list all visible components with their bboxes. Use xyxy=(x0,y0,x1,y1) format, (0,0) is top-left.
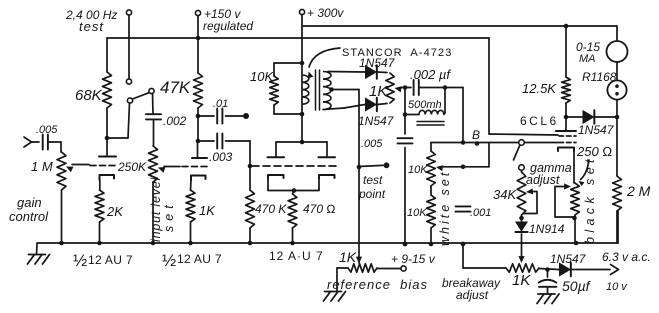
wire 34K wiper xyxy=(523,188,537,213)
ground main xyxy=(28,244,50,265)
resistor 1K stage2 xyxy=(186,190,195,243)
node primary bottom xyxy=(300,112,305,117)
svg-text:10K: 10K xyxy=(407,207,427,219)
svg-text:R1168: R1168 xyxy=(582,70,617,84)
wire 250K bottom xyxy=(152,182,154,243)
ground ref xyxy=(324,292,346,302)
meter M1 0-15MA xyxy=(607,41,628,62)
resistor 1K ref pot xyxy=(348,264,377,272)
capacitor .005 filter xyxy=(398,88,413,245)
label R1168 xyxy=(582,70,617,84)
wire white mid xyxy=(430,186,432,195)
label 0-15 MA xyxy=(576,40,600,65)
label 12AU7 third xyxy=(269,249,324,263)
svg-text:500mh: 500mh xyxy=(408,99,442,111)
wire node B xyxy=(431,142,558,144)
wire plates common xyxy=(276,140,327,156)
label 1N547 bias xyxy=(550,252,587,266)
arrow to transformer xyxy=(308,48,340,79)
label 47K xyxy=(160,78,191,97)
label 6CL6 xyxy=(520,114,559,128)
node center tap xyxy=(329,87,334,92)
transformer T1 secondary xyxy=(323,72,331,110)
wire cap to 1M xyxy=(48,142,61,152)
wire cathode drop xyxy=(573,151,575,183)
node 2K ground xyxy=(97,241,102,246)
inductor 500mh core xyxy=(417,122,444,126)
svg-text:½: ½ xyxy=(73,251,87,270)
label .005 filter xyxy=(361,138,383,150)
label 10K white bottom xyxy=(407,207,427,219)
svg-text:2 M: 2 M xyxy=(626,183,651,199)
diode 1N547 meter xyxy=(566,110,617,123)
terminal +300V xyxy=(299,9,304,63)
switch S1 contact b xyxy=(127,98,132,103)
node grid tap xyxy=(248,164,253,169)
label 10v xyxy=(606,281,628,293)
node bus dot 470 xyxy=(0,0,1,1)
label 1K stage2 xyxy=(199,203,216,218)
capacitor .003 feedback xyxy=(198,134,250,149)
capacitor 50uf xyxy=(538,270,557,295)
wire cathode to 1K xyxy=(190,180,193,190)
label .002uf xyxy=(410,67,451,82)
resistor 34K pot xyxy=(517,170,526,215)
svg-text:1N547: 1N547 xyxy=(358,114,395,128)
label half 12AU7 second xyxy=(162,251,222,270)
wire 500mh right xyxy=(444,88,446,114)
wire 34K to diode xyxy=(521,215,523,222)
label 2M xyxy=(626,183,651,199)
label half 12AU7 first xyxy=(73,251,133,270)
resistor 470K xyxy=(246,141,255,243)
label B xyxy=(472,128,480,142)
label 1N914 xyxy=(529,222,565,236)
wire grid1 feed xyxy=(489,134,558,135)
wire center tap xyxy=(332,89,360,91)
node meter junction xyxy=(615,115,620,120)
pentode 6CL6 cathode xyxy=(558,148,574,152)
svg-text:B: B xyxy=(472,128,480,142)
label gamma adjust xyxy=(526,161,572,187)
svg-text:47K: 47K xyxy=(160,78,191,97)
wire +150V bus xyxy=(107,38,489,134)
wire plate riser xyxy=(301,63,303,142)
diode 1N547 top xyxy=(366,65,377,78)
diode 1N914 xyxy=(515,222,527,232)
wire cathode to 2K xyxy=(99,180,101,190)
wire meter link xyxy=(616,62,618,81)
svg-text:1N547: 1N547 xyxy=(359,56,396,70)
node 250K ground xyxy=(151,241,156,246)
svg-text:.005: .005 xyxy=(361,138,383,150)
node plate junction xyxy=(564,115,569,120)
wire diode to 1K pot xyxy=(378,71,388,74)
switch S1 pole xyxy=(149,88,154,93)
wire plate drop xyxy=(197,116,199,141)
label +300V xyxy=(307,6,344,20)
svg-text:gain: gain xyxy=(17,195,42,210)
svg-text:.01: .01 xyxy=(213,98,228,110)
wire switch pole down xyxy=(152,94,155,114)
resistor 250ohm pot xyxy=(571,183,580,215)
node 1M ground xyxy=(59,241,64,246)
triode V1a grid xyxy=(90,165,118,167)
resistor 47K xyxy=(194,38,203,116)
svg-text:2K: 2K xyxy=(106,204,124,219)
svg-text:.002 µf: .002 µf xyxy=(410,67,451,82)
label 2K xyxy=(106,204,124,219)
label .005 input xyxy=(36,124,58,136)
svg-text:1K: 1K xyxy=(512,272,531,289)
wire +300V bus xyxy=(302,26,617,41)
label black set xyxy=(583,155,597,244)
node 50uf tap xyxy=(545,267,550,272)
wire white wiper xyxy=(436,143,489,171)
capacitor .002uf xyxy=(414,80,463,95)
switch S1 lever xyxy=(133,93,150,99)
node 1K ground xyxy=(188,241,193,246)
terminal +150V regulated xyxy=(195,10,200,38)
svg-text:point: point xyxy=(358,187,386,201)
label STANCOR xyxy=(342,47,452,59)
node test point tap xyxy=(357,165,362,170)
svg-text:1K: 1K xyxy=(199,203,216,218)
triode V1a cathode xyxy=(100,175,115,180)
switch S2 contact xyxy=(519,140,525,146)
ground 50uf xyxy=(537,294,559,304)
wire breakaway right xyxy=(539,269,559,270)
label breakaway adjust xyxy=(442,276,501,302)
node white ground xyxy=(429,242,434,247)
triode V1a plate xyxy=(99,138,116,157)
wire center tap drop xyxy=(358,90,360,264)
svg-text:test: test xyxy=(79,19,104,34)
node 47K plate junction xyxy=(196,114,201,119)
resistor 68K xyxy=(103,38,112,138)
wire 1K wiper out xyxy=(395,86,412,92)
triode V2b plate xyxy=(319,156,336,158)
svg-text:MA: MA xyxy=(579,53,596,65)
label 12.5K xyxy=(522,81,557,96)
diode 1N547 bottom xyxy=(366,98,377,111)
svg-text:test: test xyxy=(363,173,383,187)
node wiper cross xyxy=(461,165,466,170)
triode V2b cathode xyxy=(319,175,335,189)
inductor 500mh xyxy=(405,110,445,114)
resistor 10K primary xyxy=(270,63,302,114)
label 250 ohm xyxy=(576,144,612,159)
label input level set xyxy=(149,176,163,242)
svg-text:50µf: 50µf xyxy=(562,278,592,294)
diode 1N547 bias xyxy=(560,263,571,276)
svg-text:250K: 250K xyxy=(117,160,147,174)
svg-text:.003: .003 xyxy=(209,150,233,164)
pentode 6CL6 plate xyxy=(556,117,576,131)
transformer T1 primary xyxy=(302,75,309,104)
label +150V regulated xyxy=(203,7,253,33)
triode V2a cathode xyxy=(268,175,284,189)
terminal 2400Hz test xyxy=(126,10,131,79)
triode V1b cathode xyxy=(191,176,206,181)
label .002 switch xyxy=(163,114,187,128)
capacitor .005 input xyxy=(43,135,48,150)
resistor 10K white top xyxy=(427,151,436,186)
svg-text:1K: 1K xyxy=(339,249,357,265)
resistor 1K breakaway pot xyxy=(506,264,539,272)
label .001 xyxy=(470,207,491,219)
label 1K breakaway xyxy=(512,272,531,289)
svg-text:68K: 68K xyxy=(75,87,103,104)
svg-text:10K: 10K xyxy=(408,164,428,176)
arrow 250 ohm xyxy=(579,160,590,186)
arrow ref wiper xyxy=(356,257,362,264)
svg-text:adjust: adjust xyxy=(526,173,560,187)
wire cathodes join xyxy=(268,188,319,193)
node test point xyxy=(384,162,390,168)
svg-text:+ 300v: + 300v xyxy=(307,6,344,20)
resistor 1K detector pot xyxy=(386,73,394,103)
label +9-15V xyxy=(391,252,436,266)
label 34K xyxy=(493,187,517,202)
node junction +150V feed xyxy=(196,36,201,41)
svg-text:12.5K: 12.5K xyxy=(522,81,557,96)
wire filter to B xyxy=(462,88,464,143)
svg-text:½: ½ xyxy=(162,251,176,270)
wire diode to 1K pot bottom xyxy=(378,104,388,105)
wire test point xyxy=(359,165,384,166)
node .005 ground xyxy=(403,242,408,247)
wire ground bus xyxy=(37,211,618,243)
wire to 6.3v xyxy=(571,265,619,275)
svg-text:6.3 v a.c.: 6.3 v a.c. xyxy=(602,250,651,264)
label 1M xyxy=(31,159,53,174)
resistor 1M pot xyxy=(57,152,66,190)
label 50uf xyxy=(562,278,592,294)
node 500mh right xyxy=(443,85,448,90)
node 12.5K top xyxy=(564,24,569,29)
label 1N547 bottom xyxy=(358,114,395,128)
label 250K xyxy=(117,160,147,174)
triode V2 grids xyxy=(252,165,337,167)
svg-text:470 K: 470 K xyxy=(255,202,287,216)
label 500mh xyxy=(408,99,442,111)
wire jack down xyxy=(616,100,618,117)
label 2400Hz test xyxy=(65,8,117,34)
svg-text:0-15: 0-15 xyxy=(576,40,600,54)
jack R1168 xyxy=(607,80,626,99)
triode V2a plate xyxy=(268,156,285,158)
node bus taps xyxy=(248,241,466,247)
label test point xyxy=(358,173,386,201)
svg-text:.002: .002 xyxy=(163,114,187,128)
svg-text:black set: black set xyxy=(583,155,597,244)
node 250 ground xyxy=(574,241,579,246)
svg-text:10 v: 10 v xyxy=(606,281,628,293)
label reference bias xyxy=(327,277,428,292)
svg-text:1K: 1K xyxy=(369,83,388,100)
input connector xyxy=(24,137,39,147)
node primary top xyxy=(300,61,305,66)
svg-text:12 AU 7: 12 AU 7 xyxy=(177,252,222,266)
switch S2 lever xyxy=(514,146,520,160)
svg-text:.001: .001 xyxy=(470,207,491,219)
svg-text:470 Ω: 470 Ω xyxy=(303,202,336,216)
resistor 12.5K xyxy=(562,26,571,117)
node wiper xyxy=(403,85,408,90)
label gain control xyxy=(9,195,49,224)
wire switch to 68K node xyxy=(107,103,130,138)
svg-text:6CL6: 6CL6 xyxy=(520,114,559,128)
wire secondary top xyxy=(328,71,365,74)
svg-text:34K: 34K xyxy=(493,187,517,202)
resistor 2M xyxy=(613,117,622,243)
label 1N547 top xyxy=(359,56,396,70)
wire white bottom xyxy=(430,228,432,244)
svg-text:1N914: 1N914 xyxy=(529,222,565,236)
triode V1b grid xyxy=(182,166,209,168)
wire ref left xyxy=(337,268,348,291)
resistor 10K white bottom xyxy=(427,195,436,228)
svg-text:regulated: regulated xyxy=(203,19,253,33)
node B tap xyxy=(475,141,480,146)
node B junction xyxy=(461,140,466,145)
wire 1M wiper to grid xyxy=(66,165,89,173)
svg-text:10K: 10K xyxy=(250,69,274,84)
wire cap to 250K xyxy=(153,120,155,147)
node 68K plate junction xyxy=(105,136,110,141)
node filter left xyxy=(403,112,408,117)
label set xyxy=(162,200,176,232)
svg-text:1N547: 1N547 xyxy=(578,123,615,137)
triode 6CL6 grid1 dash xyxy=(559,135,576,137)
wire 250 wiper xyxy=(555,183,573,217)
label .01 xyxy=(213,98,228,110)
resistor 470ohm xyxy=(288,191,297,244)
svg-text:1 M: 1 M xyxy=(31,159,53,174)
triode 6CL6 grid2 dash xyxy=(559,142,576,144)
capacitor .01 coupling xyxy=(198,109,243,124)
label 10K primary xyxy=(250,69,274,84)
wire white set top xyxy=(430,143,432,152)
label .003 xyxy=(209,150,233,164)
capacitor .002 switch xyxy=(146,114,161,119)
node .01 output xyxy=(243,113,249,119)
switch S1 contact a xyxy=(126,79,131,84)
node .003 junction xyxy=(196,139,201,144)
label 470K xyxy=(255,202,287,216)
wire secondary bottom xyxy=(323,105,365,110)
svg-text:12 A·U 7: 12 A·U 7 xyxy=(269,249,324,263)
svg-text:reference bias: reference bias xyxy=(327,277,428,292)
wire 1M bottom xyxy=(61,190,63,243)
svg-text:adjust: adjust xyxy=(456,288,489,302)
svg-text:input level: input level xyxy=(149,176,163,242)
label white set xyxy=(438,170,452,246)
switch S2 pole xyxy=(519,165,525,171)
svg-text:.005: .005 xyxy=(36,124,58,136)
capacitor .001 xyxy=(456,206,471,246)
label 6.3v ac xyxy=(602,250,651,264)
label 470ohm xyxy=(303,202,336,216)
wire breakaway left xyxy=(463,244,506,268)
terminal +9-15V xyxy=(401,266,406,271)
label 10K white top xyxy=(408,164,428,176)
transformer T1 core xyxy=(316,70,320,110)
resistor 250K pot xyxy=(149,146,158,182)
wire diode to breakaway xyxy=(518,234,524,263)
node 34K bottom xyxy=(519,216,524,221)
svg-text:1N547: 1N547 xyxy=(550,252,587,266)
svg-text:12 AU 7: 12 AU 7 xyxy=(88,253,133,267)
svg-text:control: control xyxy=(9,209,49,224)
label 1N547 meter xyxy=(578,123,615,137)
svg-text:+ 9-15 v: + 9-15 v xyxy=(391,252,436,266)
label 1K ref xyxy=(339,249,357,265)
label 1K detector xyxy=(369,83,388,100)
svg-text:white set: white set xyxy=(438,170,452,246)
svg-text:set: set xyxy=(162,200,176,232)
wire ref right xyxy=(377,268,401,270)
triode V1b plate xyxy=(192,141,207,158)
wire 250K wiper to grid xyxy=(158,167,180,173)
resistor 2K xyxy=(95,190,104,243)
wire 250 bottom xyxy=(572,215,577,243)
label 68K xyxy=(75,87,103,104)
